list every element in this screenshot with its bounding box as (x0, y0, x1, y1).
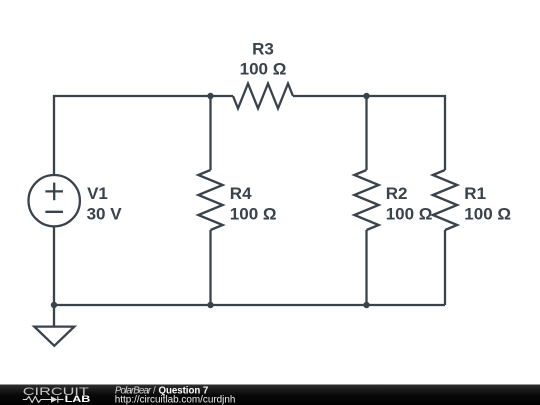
svg-text:R2: R2 (386, 184, 408, 203)
svg-text:30 V: 30 V (87, 204, 123, 223)
svg-text:http://circuitlab.com/curdjnh: http://circuitlab.com/curdjnh (115, 395, 236, 405)
svg-text:100 Ω: 100 Ω (464, 204, 511, 223)
svg-text:R3: R3 (252, 39, 274, 58)
svg-text:100 Ω: 100 Ω (386, 204, 433, 223)
svg-text:100 Ω: 100 Ω (230, 204, 277, 223)
svg-text:R1: R1 (464, 184, 486, 203)
svg-text:100 Ω: 100 Ω (240, 60, 287, 79)
svg-text:R4: R4 (230, 184, 252, 203)
svg-text:V1: V1 (87, 184, 108, 203)
svg-text:LAB: LAB (65, 394, 91, 404)
